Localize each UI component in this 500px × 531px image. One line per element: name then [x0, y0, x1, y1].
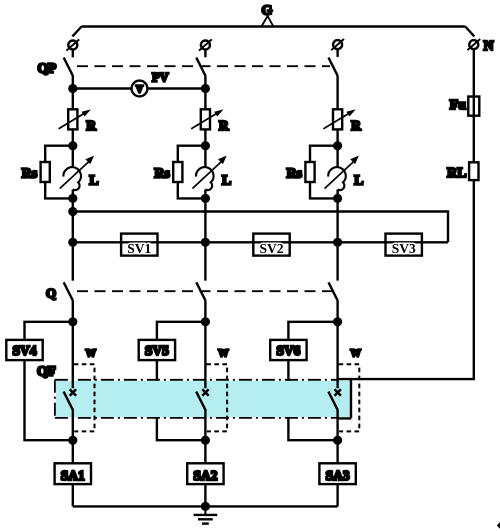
node bottom of Rs/L (phase 1) — [68, 194, 77, 203]
inductor L (phase 1) — [60, 146, 94, 199]
node bus upper col1 — [68, 207, 77, 216]
wire Rs branch (phase 3) — [310, 146, 338, 199]
wire QF pole 1 to node — [72, 409, 74, 440]
switch blade QF pole 2 — [196, 392, 205, 410]
wire lead to phase A terminal — [72, 27, 81, 37]
wire SA1 to ground bus — [72, 484, 74, 506]
inductor L (phase 2) — [192, 146, 226, 199]
node SV bus col3 — [333, 238, 342, 247]
wire L node down to Q (phase 2) — [204, 198, 206, 280]
svg-text:SV2: SV2 — [259, 241, 283, 256]
wire SA3 to ground bus — [336, 484, 338, 506]
switch QP linkage dashed — [77, 65, 330, 67]
contact cross QF pole 1 — [70, 389, 76, 396]
svg-text:W: W — [218, 349, 229, 360]
node col2 voltmeter junction — [201, 84, 210, 93]
switch blade QF pole 3 — [328, 392, 337, 410]
wire N terminal to fuse — [473, 49, 475, 96]
switch Q pole 3 — [329, 282, 338, 300]
switch QP pole 3 — [329, 58, 338, 76]
wire node to SA2 — [204, 440, 206, 463]
resistor RL — [469, 162, 478, 180]
svg-text:QF: QF — [37, 364, 56, 379]
wire Q1 to node — [72, 300, 74, 322]
switch QP pole 2 — [196, 58, 205, 76]
wire into QF pole 2 — [204, 322, 206, 389]
wire branch to SV5 — [157, 322, 206, 340]
wire bus SV row — [73, 241, 448, 243]
CT winding W dashed box (phase 3) — [339, 364, 360, 431]
wire R to L node (phase 3) — [336, 129, 338, 145]
wire bus upper — [73, 212, 448, 243]
svg-text:SV5: SV5 — [145, 343, 169, 358]
relay SV4 — [6, 340, 42, 360]
svg-text:N: N — [484, 39, 494, 54]
svg-text:SA2: SA2 — [193, 468, 217, 483]
svg-text:R: R — [86, 118, 96, 133]
svg-text:V: V — [136, 85, 144, 96]
resistor R (phase 2) — [191, 109, 223, 129]
wire SV5 down and to node — [157, 360, 206, 440]
wire Fu to RL — [473, 116, 475, 163]
relay SV1 — [121, 234, 157, 257]
wire G bus top — [82, 25, 466, 27]
breaker QF frame band — [56, 381, 350, 417]
svg-text:W: W — [350, 349, 361, 360]
svg-text:R: R — [219, 118, 229, 133]
relay SV6 — [270, 340, 306, 360]
wire lead to neutral terminal — [465, 27, 474, 37]
breaker frame border top — [55, 379, 337, 381]
wire QF pole 3 to node — [336, 409, 338, 440]
switch Q pole 1 — [64, 282, 73, 300]
wire QP3 to R — [336, 76, 338, 110]
svg-text:Rs: Rs — [154, 166, 170, 181]
resistor R (phase 3) — [323, 109, 355, 129]
wire Rs branch (phase 1) — [45, 146, 73, 199]
node bottom of Rs/L (phase 2) — [201, 194, 210, 203]
wire SV6 down and to node — [288, 360, 337, 440]
CT winding W dashed box (phase 2) — [206, 364, 227, 431]
node SV bus col1 — [68, 238, 77, 247]
breaker frame border bottom — [55, 417, 339, 419]
svg-text:SV3: SV3 — [392, 241, 416, 256]
svg-text:Rs: Rs — [286, 166, 302, 181]
breaker frame right solid edge — [339, 379, 351, 418]
wire L node down to Q (phase 1) — [72, 198, 74, 280]
wire QF pole 2 to node — [204, 409, 206, 440]
relay SV2 — [253, 234, 289, 257]
contact cross QF pole 3 — [335, 389, 341, 396]
node ground junction — [201, 502, 210, 511]
decorative corner mark — [497, 522, 500, 529]
svg-text:G: G — [262, 4, 273, 19]
wire branch to SV4 — [25, 322, 73, 340]
wire QP1 to R — [72, 76, 74, 110]
node col1 voltmeter junction — [68, 84, 77, 93]
relay SV3 — [386, 234, 422, 257]
node G tap caret — [261, 16, 273, 27]
wire Rs branch (phase 2) — [178, 146, 206, 199]
wire SV4 down and to node — [25, 360, 73, 440]
switch QP pole 1 — [64, 58, 73, 76]
node below QF pole 2 — [201, 436, 210, 445]
ground — [194, 506, 218, 523]
device SA2 — [187, 463, 223, 484]
node top of Rs/L (phase 2) — [201, 141, 210, 150]
node below QF pole 3 — [333, 436, 342, 445]
switch blade QF pole 1 — [64, 392, 73, 410]
svg-text:L: L — [222, 173, 231, 188]
resistor Rs (phase 3) — [305, 162, 314, 182]
terminal phase 2 — [199, 39, 212, 57]
wire into QF pole 1 — [72, 322, 74, 389]
svg-text:R: R — [351, 118, 361, 133]
svg-text:Fu: Fu — [450, 98, 467, 113]
terminal phase 3 — [331, 39, 344, 57]
node bottom of Rs/L (phase 3) — [333, 194, 342, 203]
resistor Rs (phase 2) — [173, 162, 182, 182]
wire Q3 to node — [336, 300, 338, 322]
svg-text:SV1: SV1 — [127, 241, 151, 256]
wire node to SA1 — [72, 440, 74, 463]
resistor Rs (phase 1) — [41, 162, 50, 182]
wire SA2 to ground bus — [204, 484, 206, 506]
svg-text:SA1: SA1 — [61, 468, 85, 483]
CT winding W dashed box (phase 1) — [74, 364, 95, 431]
node Q1 junction — [68, 317, 77, 326]
node top of Rs/L (phase 1) — [68, 141, 77, 150]
wire L node down to Q (phase 3) — [336, 198, 338, 280]
wire branch to SV6 — [288, 322, 337, 340]
node top of Rs/L (phase 3) — [333, 141, 342, 150]
wire R to L node (phase 1) — [72, 129, 74, 145]
fuse Fu — [468, 97, 479, 116]
svg-text:Rs: Rs — [22, 166, 38, 181]
wire R to L node (phase 2) — [204, 129, 206, 145]
svg-text:Q: Q — [46, 285, 56, 300]
switch Q pole 2 — [196, 282, 205, 300]
wire node to SA3 — [336, 440, 338, 463]
inductor L (phase 3) — [325, 146, 359, 199]
node Q3 junction — [333, 317, 342, 326]
breaker frame border left — [54, 380, 56, 418]
contact cross QF pole 2 — [202, 389, 208, 396]
svg-text:L: L — [354, 173, 363, 188]
wire RL down to breaker frame — [338, 180, 474, 379]
node SV bus col2 — [201, 238, 210, 247]
node below QF pole 1 — [68, 436, 77, 445]
wire voltmeter line — [73, 87, 206, 89]
device SA1 — [55, 463, 91, 484]
wire into QF pole 3 — [336, 322, 338, 389]
svg-text:W: W — [86, 349, 97, 360]
voltmeter PV — [132, 81, 148, 97]
svg-text:RL: RL — [447, 166, 466, 181]
switch Q linkage dashed — [77, 290, 332, 292]
resistor R (phase 1) — [59, 109, 91, 129]
svg-text:PV: PV — [152, 70, 169, 84]
wire Q2 to node — [204, 300, 206, 322]
wire QP2 to R — [204, 76, 206, 110]
node Q2 junction — [201, 317, 210, 326]
svg-text:QP: QP — [38, 61, 57, 76]
svg-text:L: L — [89, 173, 98, 188]
wire ground bus — [73, 505, 338, 507]
terminal phase 1 — [66, 39, 79, 57]
svg-text:SV4: SV4 — [12, 343, 36, 358]
svg-text:SV6: SV6 — [276, 343, 300, 358]
svg-text:SA3: SA3 — [326, 468, 350, 483]
device SA3 — [319, 463, 355, 484]
relay SV5 — [139, 340, 175, 360]
terminal N — [467, 39, 480, 50]
